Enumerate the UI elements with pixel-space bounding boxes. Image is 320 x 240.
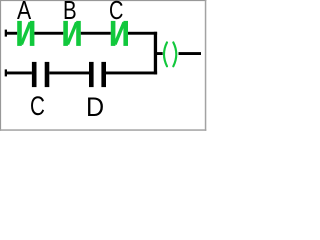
label D (86, 94, 104, 120)
contact C diagonal (115, 22, 124, 44)
wire top rung seg 3 (81, 32, 111, 35)
coil branch wire (157, 52, 163, 55)
border frame bottom (0, 129, 206, 131)
wire bottom rung seg 2 (49, 72, 89, 75)
label B (63, 0, 77, 25)
label C (bottom) (30, 93, 45, 119)
contact B (NC, green) left bar (63, 21, 68, 46)
wire bottom rung seg 1 (6, 72, 32, 75)
coil left paren (164, 42, 167, 66)
border frame right (205, 0, 207, 131)
coil right paren (173, 42, 176, 66)
contact B diagonal (68, 22, 77, 44)
right vertical join wire (154, 32, 157, 75)
wire bottom rung seg 3 (106, 72, 157, 75)
contact D right bar (101, 62, 106, 87)
contact A diagonal (21, 22, 30, 44)
contact B right bar (76, 21, 81, 46)
left rail stub (top rung) (5, 30, 7, 37)
border frame left (0, 0, 1, 131)
label A (17, 0, 31, 25)
contact D (NO) left bar (89, 62, 94, 87)
contact C bottom right bar (45, 62, 50, 87)
contact A (NC, green) left bar (17, 21, 22, 46)
contact C top (NC, green) left bar (111, 21, 116, 46)
contact C bottom (NO) left bar (32, 62, 37, 87)
contact C top right bar (123, 21, 128, 46)
wire top rung seg 4 (128, 32, 157, 35)
wire top rung seg 2 (34, 32, 63, 35)
left rail stub (bottom rung) (5, 69, 7, 76)
label C (top) (109, 0, 123, 25)
border frame top (0, 0, 206, 1)
coil output wire (179, 52, 202, 55)
contact A right bar (30, 21, 35, 46)
wire top rung seg 1 (6, 32, 18, 35)
